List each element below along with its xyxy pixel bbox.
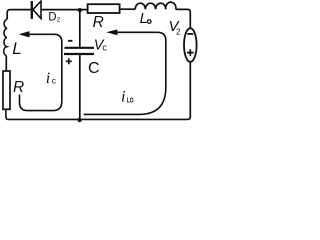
V2 minus sign [187, 33, 193, 35]
svg-text:i: i [46, 70, 50, 87]
junction dot top [78, 8, 82, 12]
label Lo subscript circle [148, 20, 152, 24]
svg-text:L: L [12, 39, 21, 58]
svg-text:i: i [121, 89, 125, 106]
capacitor C top plate [65, 47, 95, 49]
wire bottom [6, 109, 188, 119]
svg-text:LO: LO [127, 98, 134, 105]
wire middle branch lower [79, 55, 81, 120]
junction dot bottom [77, 118, 81, 122]
svg-text:C: C [88, 60, 100, 77]
svg-text:R: R [93, 14, 104, 31]
wire middle branch upper [79, 10, 81, 47]
wire top: resistor to inductor Lo [120, 8, 136, 10]
inductor L (left, vertical coil) [4, 19, 8, 56]
voltage source V2 ellipse [184, 28, 197, 62]
V2 plus sign [187, 49, 194, 56]
svg-text:c: c [52, 76, 57, 86]
svg-text:D2: D2 [48, 12, 60, 24]
wire top-left segment [7, 10, 31, 20]
resistor R (left, vertical) [3, 71, 10, 109]
capacitor minus sign [68, 40, 72, 42]
loop current arrow iLO curve [84, 32, 166, 114]
inductor Lo (top, horizontal coil) [135, 2, 176, 9]
loop current arrow iC curve [20, 34, 62, 110]
svg-text:c: c [102, 42, 107, 52]
wire right: V2 to bottom [188, 62, 191, 120]
capacitor C bottom plate [64, 53, 94, 55]
capacitor plus sign [66, 58, 72, 64]
svg-text:2: 2 [176, 27, 181, 36]
diode D2 triangle [33, 1, 41, 18]
wire top: diode to resistor [41, 9, 88, 11]
svg-text:L: L [140, 10, 148, 27]
loop current arrow iC head [19, 31, 30, 37]
svg-text:R: R [13, 79, 24, 96]
resistor R (top, horizontal) [88, 4, 120, 13]
wire left: coil to resistor R [5, 56, 7, 71]
diode D2 cathode bar [31, 1, 33, 19]
wire top-right corner down to V2 [176, 9, 191, 28]
loop current arrow iLO head [106, 29, 117, 35]
